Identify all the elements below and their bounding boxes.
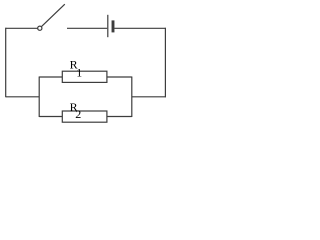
svg-text:2: 2 <box>75 107 81 121</box>
wire right junction vertical <box>131 77 133 118</box>
svg-text:1: 1 <box>76 65 82 79</box>
wire bottom-left horizontal <box>6 96 40 98</box>
wire R1 left lead <box>39 76 62 78</box>
wire switch to battery <box>67 27 107 29</box>
wire top-left horizontal <box>6 27 38 29</box>
switch S1 blade <box>42 4 65 26</box>
battery B1 negative plate (thick short) <box>112 20 115 32</box>
battery B1 positive plate (long) <box>107 15 109 37</box>
label R2 <box>70 100 82 121</box>
wire left vertical <box>5 28 7 98</box>
switch S1 pivot circle <box>38 26 42 30</box>
resistor R2 body <box>62 111 107 122</box>
wire R2 right lead <box>107 116 132 118</box>
wire bottom-right horizontal <box>132 96 166 98</box>
wire left junction vertical <box>38 77 40 118</box>
wire R2 left lead <box>39 116 62 118</box>
wire right vertical <box>164 28 166 98</box>
label R1 <box>70 57 83 79</box>
wire R1 right lead <box>107 76 132 78</box>
resistor R1 body <box>62 71 107 82</box>
wire battery to right <box>114 27 165 29</box>
